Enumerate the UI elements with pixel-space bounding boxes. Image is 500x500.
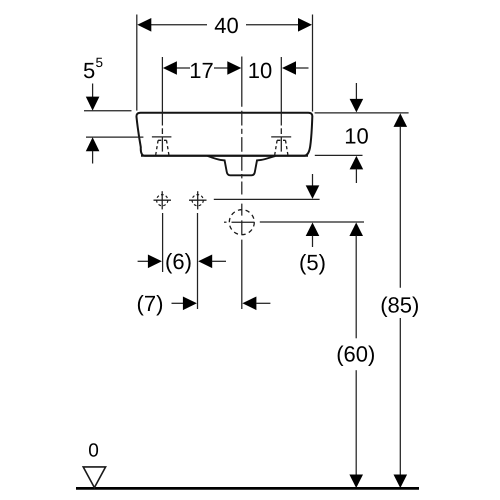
- floor line: [76, 487, 419, 490]
- svg-text:(85): (85): [380, 292, 419, 317]
- dimension (5): lower outside arrow: [306, 223, 320, 237]
- dimension 5.5: upper reference line: [84, 110, 132, 112]
- svg-text:(6): (6): [165, 249, 192, 274]
- mounting hole cross left: [154, 191, 172, 209]
- drain circle (dashed): [229, 210, 254, 235]
- dimension (6)/(7): extension line below right hole: [197, 213, 199, 309]
- svg-text:5: 5: [83, 58, 95, 83]
- reference line at mounting hole level: [214, 198, 320, 200]
- dimension (60): vertical line with arrows: [349, 223, 363, 237]
- svg-text:0: 0: [88, 441, 99, 462]
- basin outline: [136, 113, 312, 156]
- dimension (7): left outside arrow: [172, 302, 185, 304]
- dimension (6): right outside arrow: [198, 255, 212, 269]
- svg-text:(60): (60): [336, 341, 375, 366]
- faucet hole right centerline cross: [271, 128, 291, 151]
- svg-text:10: 10: [248, 58, 272, 83]
- faucet hole left centerline cross: [152, 128, 172, 151]
- datum triangle: [83, 467, 105, 488]
- svg-text:17: 17: [189, 58, 213, 83]
- dimension 17: line and arrows: [176, 67, 228, 69]
- dimension 10 right: upper arrow: [355, 83, 357, 100]
- dimension (6): extension line below left hole: [162, 213, 164, 272]
- faucet hole left (dashed trapezoid): [156, 140, 169, 155]
- dimension 5.5: upper arrow: [92, 84, 94, 98]
- svg-text:40: 40: [214, 13, 238, 38]
- dimension 17: extension line: [161, 57, 163, 126]
- dimension (5): upper outside arrow: [312, 174, 314, 187]
- dimension 40: extension line right: [312, 15, 314, 112]
- dimension (7): right outside arrow: [242, 297, 256, 311]
- dimension 10 right: lower arrow: [350, 156, 364, 170]
- dimension 10 top: extension line: [280, 57, 282, 126]
- svg-text:(5): (5): [299, 250, 326, 275]
- dimension (6): left outside arrow: [138, 260, 149, 262]
- mounting hole cross right: [189, 191, 207, 209]
- dimension (85): vertical line with arrows: [394, 113, 408, 127]
- right reference line at basin bottom level: [315, 154, 363, 156]
- dimension 5.5: lower arrow: [86, 137, 100, 151]
- right reference line at basin top level: [315, 112, 409, 114]
- drain circle horizontal centerline: [224, 221, 255, 223]
- svg-text:(7): (7): [137, 291, 164, 316]
- faucet hole right (dashed trapezoid): [275, 140, 288, 155]
- svg-text:10: 10: [344, 123, 368, 148]
- dimension 40: arrowheads: [137, 18, 151, 32]
- basin bottom edge (full width): [141, 155, 308, 157]
- dimension 5.5: lower reference line: [86, 136, 143, 138]
- drain recess and outlet stub: [208, 156, 276, 175]
- dimension 40: dimension line with text: [150, 24, 299, 26]
- basin centerline (vertical, dash-dot): [241, 57, 243, 310]
- reference line at drain level: [260, 221, 364, 223]
- dimension 10 top: outside arrow at right: [282, 61, 296, 75]
- svg-text:5: 5: [96, 55, 104, 70]
- dimension 40: extension line left: [136, 15, 138, 111]
